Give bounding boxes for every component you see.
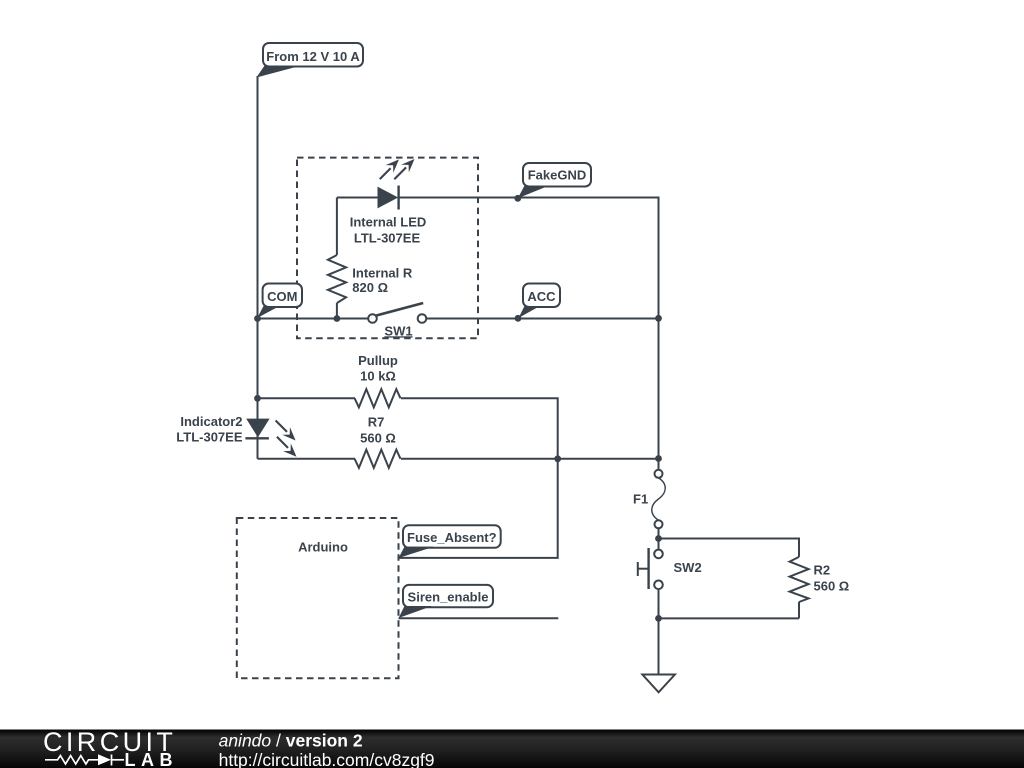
svg-text:Fuse_Absent?: Fuse_Absent? — [407, 530, 497, 545]
svg-text:From 12 V 10 A: From 12 V 10 A — [266, 49, 360, 64]
svg-text:Internal R: Internal R — [352, 266, 413, 281]
svg-text:Siren_enable: Siren_enable — [408, 590, 489, 605]
svg-text:Arduino: Arduino — [298, 539, 348, 554]
svg-text:560 Ω: 560 Ω — [814, 578, 850, 593]
svg-text:SW1: SW1 — [384, 323, 412, 338]
svg-text:R7: R7 — [368, 415, 385, 430]
svg-text:R2: R2 — [814, 562, 831, 577]
svg-text:LTL-307EE: LTL-307EE — [176, 429, 243, 444]
svg-text:LTL-307EE: LTL-307EE — [354, 231, 421, 246]
svg-text:820 Ω: 820 Ω — [352, 280, 388, 295]
svg-text:SW2: SW2 — [674, 560, 702, 575]
svg-text:ACC: ACC — [527, 289, 556, 304]
svg-text:LAB: LAB — [125, 750, 179, 768]
svg-text:FakeGND: FakeGND — [528, 168, 587, 183]
svg-text:Indicator2: Indicator2 — [180, 414, 242, 429]
svg-text:anindo / version 2: anindo / version 2 — [219, 731, 363, 751]
svg-text:F1: F1 — [633, 492, 648, 507]
svg-text:560 Ω: 560 Ω — [360, 430, 396, 445]
svg-text:Internal LED: Internal LED — [350, 215, 427, 230]
svg-text:10 kΩ: 10 kΩ — [360, 368, 396, 383]
svg-text:COM: COM — [267, 289, 297, 304]
svg-text:http://circuitlab.com/cv8zgf9: http://circuitlab.com/cv8zgf9 — [219, 750, 435, 768]
svg-text:Pullup: Pullup — [358, 353, 398, 368]
